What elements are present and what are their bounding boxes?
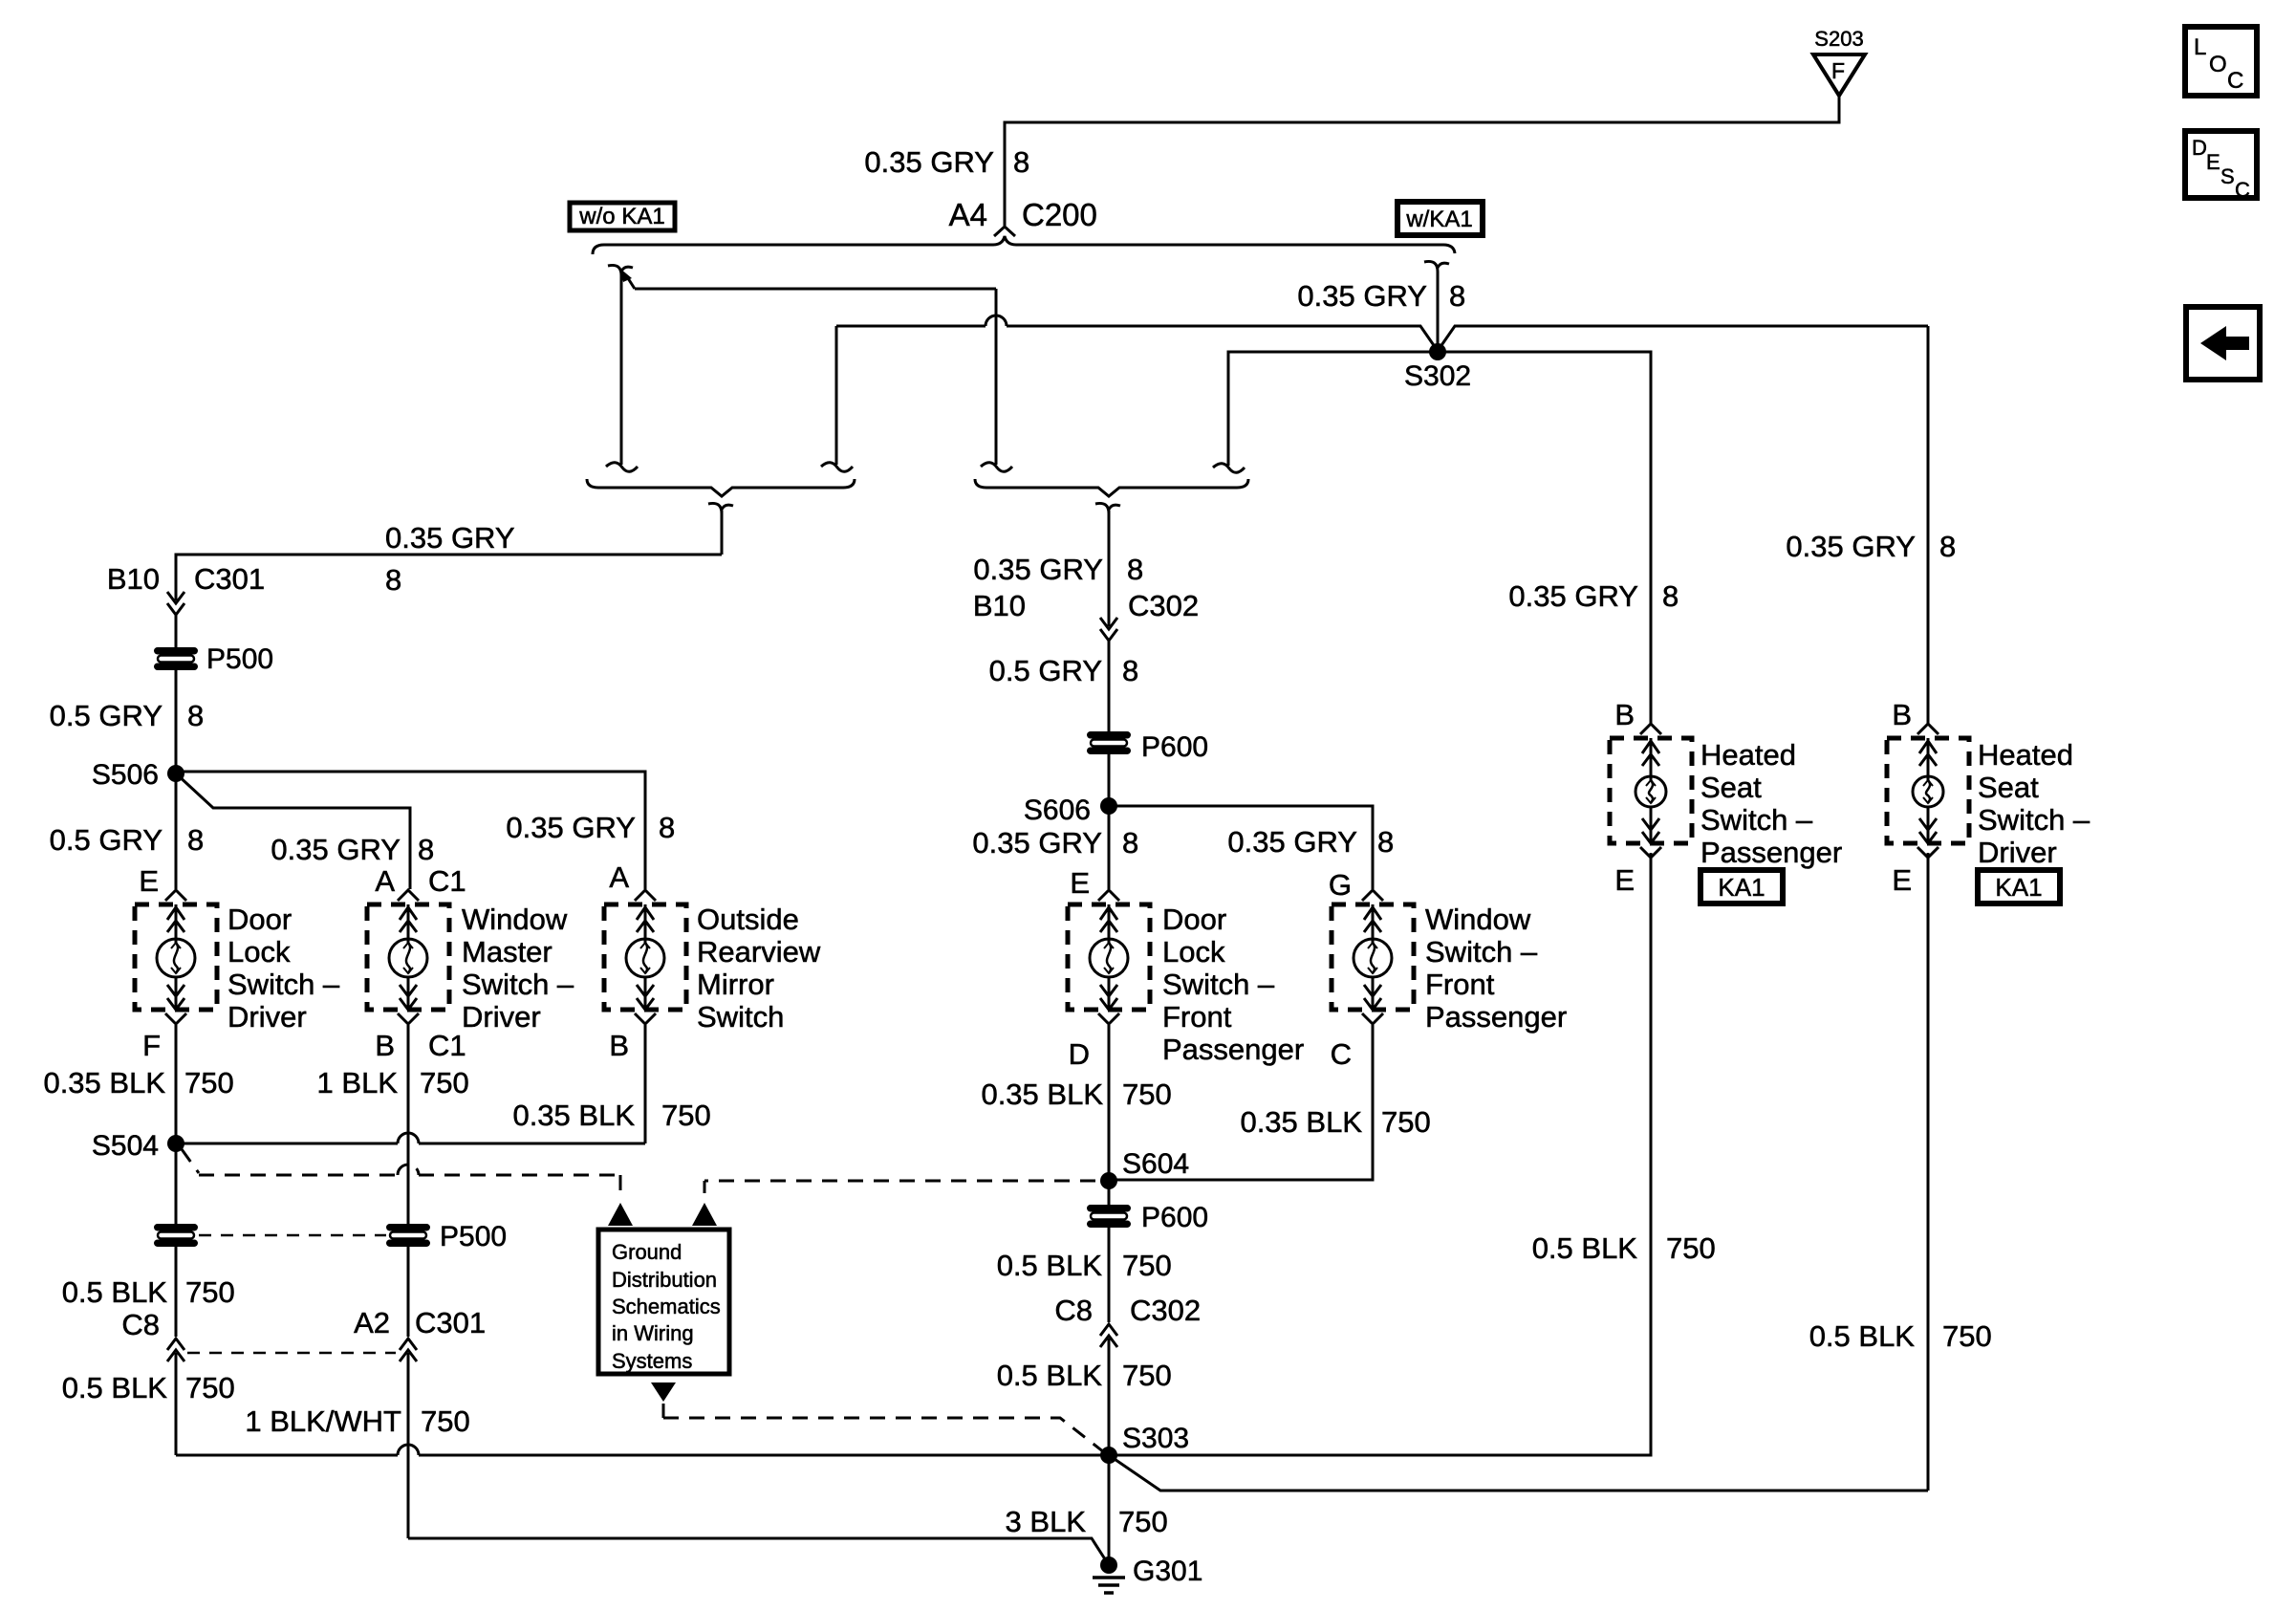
svg-text:Seat: Seat bbox=[1700, 771, 1762, 804]
svg-text:A2: A2 bbox=[354, 1306, 390, 1339]
svg-text:0.35 BLK: 0.35 BLK bbox=[43, 1066, 165, 1099]
svg-text:8: 8 bbox=[659, 811, 675, 844]
svg-text:Front: Front bbox=[1162, 1000, 1232, 1034]
svg-text:0.5 BLK: 0.5 BLK bbox=[997, 1249, 1103, 1282]
svg-text:750: 750 bbox=[1666, 1231, 1716, 1265]
svg-text:KA1: KA1 bbox=[1718, 873, 1765, 902]
svg-text:C200: C200 bbox=[1022, 197, 1097, 232]
svg-text:8: 8 bbox=[187, 699, 204, 732]
svg-text:0.35 GRY: 0.35 GRY bbox=[271, 833, 401, 866]
svg-text:Lock: Lock bbox=[1162, 935, 1225, 969]
svg-text:O: O bbox=[2209, 52, 2227, 77]
svg-text:Mirror: Mirror bbox=[697, 968, 774, 1001]
svg-text:0.35 GRY: 0.35 GRY bbox=[1508, 579, 1638, 613]
svg-text:C: C bbox=[2227, 68, 2243, 94]
svg-text:KA1: KA1 bbox=[1995, 873, 2042, 902]
svg-text:C: C bbox=[1331, 1037, 1352, 1071]
svg-text:Seat: Seat bbox=[1978, 771, 2039, 804]
svg-text:C: C bbox=[2235, 178, 2250, 202]
svg-text:8: 8 bbox=[418, 833, 434, 866]
svg-text:750: 750 bbox=[1122, 1078, 1172, 1111]
svg-text:750: 750 bbox=[420, 1066, 469, 1099]
svg-text:0.35 GRY: 0.35 GRY bbox=[1227, 825, 1357, 859]
svg-text:B10: B10 bbox=[107, 562, 160, 596]
svg-text:C302: C302 bbox=[1130, 1294, 1201, 1327]
svg-text:Passenger: Passenger bbox=[1425, 1000, 1567, 1034]
svg-text:0.35 GRY: 0.35 GRY bbox=[1786, 530, 1916, 563]
svg-text:S506: S506 bbox=[92, 759, 159, 791]
svg-text:P500: P500 bbox=[206, 643, 273, 675]
svg-text:w/KA1: w/KA1 bbox=[1405, 207, 1472, 232]
svg-text:0.5 GRY: 0.5 GRY bbox=[989, 654, 1102, 687]
svg-text:Switch –: Switch – bbox=[1425, 935, 1538, 969]
svg-text:E: E bbox=[2206, 150, 2220, 174]
svg-text:Driver: Driver bbox=[1978, 836, 2057, 869]
svg-text:F: F bbox=[1831, 58, 1845, 83]
svg-text:750: 750 bbox=[1122, 1249, 1172, 1282]
svg-text:F: F bbox=[142, 1029, 161, 1062]
svg-text:0.5 GRY: 0.5 GRY bbox=[50, 823, 162, 857]
svg-text:C1: C1 bbox=[428, 864, 466, 898]
svg-text:8: 8 bbox=[1122, 654, 1138, 687]
svg-text:C8: C8 bbox=[1054, 1294, 1093, 1327]
svg-text:Window: Window bbox=[462, 903, 568, 936]
svg-text:Ground: Ground bbox=[612, 1240, 682, 1264]
svg-text:C301: C301 bbox=[194, 562, 265, 596]
svg-text:0.5 BLK: 0.5 BLK bbox=[62, 1275, 168, 1309]
svg-text:w/o KA1: w/o KA1 bbox=[578, 204, 664, 229]
svg-text:S: S bbox=[2220, 164, 2235, 188]
svg-text:Switch –: Switch – bbox=[1700, 803, 1813, 837]
svg-text:A4: A4 bbox=[949, 197, 987, 232]
svg-text:S203: S203 bbox=[1814, 27, 1863, 51]
svg-text:750: 750 bbox=[1942, 1319, 1992, 1353]
svg-text:0.35 GRY: 0.35 GRY bbox=[1297, 279, 1427, 313]
svg-text:Passenger: Passenger bbox=[1162, 1033, 1304, 1066]
svg-text:Master: Master bbox=[462, 935, 552, 969]
svg-text:Heated: Heated bbox=[1978, 738, 2073, 772]
svg-text:S504: S504 bbox=[92, 1130, 159, 1162]
svg-text:0.35 GRY: 0.35 GRY bbox=[864, 145, 994, 179]
svg-text:B: B bbox=[375, 1029, 395, 1062]
svg-text:S606: S606 bbox=[1024, 795, 1091, 826]
svg-text:G: G bbox=[1329, 868, 1352, 902]
svg-text:0.5 BLK: 0.5 BLK bbox=[62, 1371, 168, 1404]
svg-text:8: 8 bbox=[1013, 145, 1029, 179]
svg-text:8: 8 bbox=[187, 823, 204, 857]
svg-text:Distribution: Distribution bbox=[612, 1268, 717, 1292]
svg-text:S303: S303 bbox=[1122, 1423, 1189, 1454]
svg-text:C8: C8 bbox=[121, 1308, 160, 1341]
svg-text:E: E bbox=[1892, 863, 1912, 897]
svg-text:Switch –: Switch – bbox=[462, 968, 574, 1001]
svg-text:Rearview: Rearview bbox=[697, 935, 821, 969]
svg-text:750: 750 bbox=[1381, 1105, 1431, 1139]
svg-text:B: B bbox=[1892, 698, 1912, 731]
svg-text:750: 750 bbox=[661, 1099, 711, 1132]
svg-text:Heated: Heated bbox=[1700, 738, 1796, 772]
svg-text:Driver: Driver bbox=[227, 1000, 307, 1034]
svg-text:1 BLK: 1 BLK bbox=[317, 1066, 399, 1099]
svg-text:Window: Window bbox=[1425, 903, 1531, 936]
svg-text:0.5 BLK: 0.5 BLK bbox=[1532, 1231, 1638, 1265]
svg-text:L: L bbox=[2194, 34, 2206, 60]
svg-text:G301: G301 bbox=[1133, 1556, 1202, 1587]
svg-text:8: 8 bbox=[1122, 826, 1138, 860]
svg-text:Switch –: Switch – bbox=[1978, 803, 2090, 837]
svg-text:3 BLK: 3 BLK bbox=[1006, 1505, 1087, 1538]
svg-text:B: B bbox=[609, 1029, 629, 1062]
svg-text:0.35 GRY: 0.35 GRY bbox=[973, 553, 1103, 586]
svg-text:8: 8 bbox=[1127, 553, 1143, 586]
svg-text:Lock: Lock bbox=[227, 935, 291, 969]
svg-text:750: 750 bbox=[185, 1371, 235, 1404]
svg-text:E: E bbox=[1614, 863, 1635, 897]
svg-text:S604: S604 bbox=[1122, 1148, 1189, 1180]
svg-text:0.35 GRY: 0.35 GRY bbox=[385, 521, 515, 555]
svg-text:0.5 GRY: 0.5 GRY bbox=[50, 699, 162, 732]
svg-text:S302: S302 bbox=[1404, 360, 1471, 392]
svg-text:Outside: Outside bbox=[697, 903, 799, 936]
svg-text:Switch –: Switch – bbox=[227, 968, 340, 1001]
svg-text:D: D bbox=[2192, 136, 2207, 160]
svg-text:0.35 BLK: 0.35 BLK bbox=[981, 1078, 1103, 1111]
svg-text:B: B bbox=[1614, 698, 1635, 731]
svg-text:P600: P600 bbox=[1141, 1202, 1208, 1233]
svg-text:0.35 GRY: 0.35 GRY bbox=[972, 826, 1102, 860]
svg-text:Switch –: Switch – bbox=[1162, 968, 1275, 1001]
svg-text:8: 8 bbox=[1939, 530, 1956, 563]
svg-text:E: E bbox=[1070, 866, 1090, 900]
svg-text:0.35 BLK: 0.35 BLK bbox=[1240, 1105, 1362, 1139]
svg-text:8: 8 bbox=[1662, 579, 1679, 613]
svg-text:Front: Front bbox=[1425, 968, 1495, 1001]
svg-text:E: E bbox=[139, 864, 159, 898]
svg-text:8: 8 bbox=[1377, 825, 1394, 859]
svg-text:0.35 BLK: 0.35 BLK bbox=[512, 1099, 635, 1132]
svg-text:Driver: Driver bbox=[462, 1000, 541, 1034]
svg-text:D: D bbox=[1069, 1037, 1090, 1071]
svg-text:8: 8 bbox=[1449, 279, 1465, 313]
svg-text:750: 750 bbox=[1118, 1505, 1168, 1538]
svg-text:Switch: Switch bbox=[697, 1000, 784, 1034]
svg-text:P500: P500 bbox=[440, 1221, 507, 1252]
svg-text:0.35 GRY: 0.35 GRY bbox=[506, 811, 636, 844]
svg-text:750: 750 bbox=[421, 1404, 470, 1438]
svg-text:in Wiring: in Wiring bbox=[612, 1321, 694, 1345]
svg-text:Schematics: Schematics bbox=[612, 1295, 721, 1318]
svg-text:Systems: Systems bbox=[612, 1349, 692, 1373]
svg-text:8: 8 bbox=[385, 563, 401, 597]
svg-text:C301: C301 bbox=[415, 1306, 486, 1339]
svg-text:0.5 BLK: 0.5 BLK bbox=[1809, 1319, 1916, 1353]
svg-text:C302: C302 bbox=[1128, 589, 1199, 622]
svg-text:750: 750 bbox=[184, 1066, 234, 1099]
svg-text:Door: Door bbox=[227, 903, 292, 936]
svg-text:0.5 BLK: 0.5 BLK bbox=[997, 1359, 1103, 1392]
svg-text:750: 750 bbox=[1122, 1359, 1172, 1392]
svg-text:750: 750 bbox=[185, 1275, 235, 1309]
svg-text:P600: P600 bbox=[1141, 731, 1208, 763]
svg-text:A: A bbox=[609, 860, 629, 894]
svg-text:Passenger: Passenger bbox=[1700, 836, 1842, 869]
svg-text:C1: C1 bbox=[428, 1029, 466, 1062]
svg-text:1 BLK/WHT: 1 BLK/WHT bbox=[245, 1404, 401, 1438]
svg-text:Door: Door bbox=[1162, 903, 1226, 936]
svg-text:A: A bbox=[375, 864, 395, 898]
svg-text:B10: B10 bbox=[973, 589, 1026, 622]
